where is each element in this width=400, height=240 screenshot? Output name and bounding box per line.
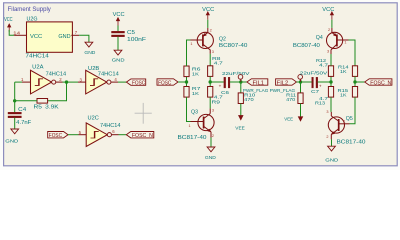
svg-text:22uF/50V: 22uF/50V: [300, 71, 328, 77]
capacitor C7 22uF/50V: [300, 71, 328, 95]
svg-text:74HC14: 74HC14: [25, 54, 49, 60]
svg-text:1K: 1K: [340, 69, 347, 75]
pin 14 (U2G VCC): [13, 30, 26, 35]
resistor R7 1K: [184, 86, 201, 97]
svg-text:FIL2: FIL2: [277, 80, 289, 86]
wire R9 to Q3 collector: [209, 97, 211, 108]
inverter U2B 74HC14: [86, 66, 119, 94]
pin 3 (Q4 collector): [327, 49, 329, 53]
pin 2 (U2A output): [56, 77, 63, 82]
svg-text:3: 3: [212, 108, 214, 112]
svg-text:4.7: 4.7: [214, 61, 223, 67]
svg-text:Filament Supply: Filament Supply: [8, 6, 52, 13]
pin 7 (U2G GND): [71, 30, 79, 35]
global label FOSC_N (driver input): [365, 79, 392, 87]
pin 1 (Q2 base): [190, 42, 192, 46]
wire through base node right: [354, 76, 356, 86]
svg-text:22uF/50V: 22uF/50V: [222, 71, 250, 77]
svg-text:C5: C5: [127, 30, 135, 36]
wire R15 to Q5 base: [350, 97, 356, 124]
svg-text:3: 3: [326, 110, 328, 114]
wire R12 to Q4 collector: [330, 54, 332, 66]
svg-text:BC807-40: BC807-40: [219, 43, 248, 49]
wire junction to pin 3: [67, 81, 79, 83]
power VCC (Q4): [322, 7, 334, 28]
wire U2A output: [63, 81, 67, 83]
junction FIL2 node: [299, 80, 302, 83]
svg-text:1: 1: [344, 40, 346, 44]
svg-text:2: 2: [212, 134, 214, 138]
pin 5 (U2C input): [79, 130, 87, 135]
ground GND (Q5): [325, 139, 338, 163]
wire U2B output to label: [118, 81, 126, 83]
pin 2 (Q3 emitter): [212, 134, 214, 138]
wire VCC to pin 14: [9, 30, 14, 35]
wire C4 to GND: [14, 118, 16, 129]
svg-text:+: +: [219, 83, 222, 88]
inverter U2C 74HC14: [86, 116, 120, 147]
capacitor C6 22uF/50V: [219, 71, 251, 96]
svg-text:GND: GND: [84, 50, 95, 56]
svg-text:BC817-40: BC817-40: [178, 135, 207, 141]
junction input node: [13, 99, 16, 102]
svg-text:2: 2: [326, 135, 328, 139]
pin 1 (Q3 base): [189, 124, 191, 128]
global label FOSC (U2B output): [126, 79, 145, 87]
svg-text:100nF: 100nF: [127, 37, 146, 43]
ground GND (Q3): [205, 138, 216, 162]
resistor R12 4.7: [316, 58, 334, 76]
wire C5 to GND: [117, 37, 119, 51]
pin 1 (Q4 base): [344, 40, 346, 44]
resistor R14 1K: [338, 64, 358, 76]
cursor crosshair: [135, 103, 152, 124]
svg-text:1: 1: [189, 124, 191, 128]
resistor R6 1K: [184, 66, 201, 77]
power VEE (R11): [284, 104, 302, 123]
svg-text:U2A: U2A: [32, 65, 44, 71]
junction right output node: [329, 80, 332, 83]
global label FIL2: [276, 79, 301, 87]
wire Q2 collector to R8: [209, 54, 211, 66]
transistor Q3 BC817-40 (NPN): [178, 108, 215, 141]
svg-text:2: 2: [328, 28, 330, 32]
ground GND (C4): [5, 129, 18, 145]
svg-text:1K: 1K: [192, 91, 200, 97]
capacitor C5 100nF: [112, 30, 147, 43]
sheet title text "Filament Supply": [8, 6, 52, 13]
transistor Q2 BC807-40 (PNP): [191, 28, 248, 54]
transistor Q5 BC817-40 (NPN, mirrored): [328, 112, 365, 146]
svg-text:FOSC_N: FOSC_N: [370, 80, 391, 86]
svg-text:FOSC_N: FOSC_N: [132, 133, 153, 139]
wire C7 to output node: [318, 81, 331, 83]
svg-text:VEE: VEE: [235, 125, 245, 131]
svg-text:VEE: VEE: [284, 117, 293, 123]
inverter U2A 74HC14 (Schmitt): [31, 65, 67, 94]
global label FIL1: [241, 79, 268, 87]
junction U2A output node: [65, 80, 68, 83]
pin 1 (U2A input): [21, 77, 31, 82]
wire FOSC to base node: [178, 81, 187, 83]
capacitor C4 4.7nF: [8, 107, 31, 126]
transistor Q4 BC807-40 (PNP, mirrored): [293, 28, 349, 54]
svg-text:FOSC: FOSC: [132, 80, 146, 86]
resistor R9 4.7: [208, 87, 224, 106]
svg-text:74HC14: 74HC14: [100, 123, 121, 129]
wire input node to pin 1: [15, 81, 22, 83]
svg-text:VCC: VCC: [4, 17, 13, 23]
pin 4 (U2B output): [111, 77, 118, 82]
pin 6 (U2C output): [112, 129, 119, 135]
pin 1 (Q5 base): [343, 120, 345, 124]
ground GND (C5): [112, 50, 125, 63]
svg-text:U2C: U2C: [88, 116, 100, 122]
svg-text:74HC14: 74HC14: [46, 71, 67, 77]
svg-text:+: +: [319, 83, 322, 88]
svg-text:VCC: VCC: [113, 12, 125, 18]
svg-text:3: 3: [327, 49, 329, 53]
svg-text:R5: R5: [34, 104, 43, 110]
svg-text:FIL1: FIL1: [253, 80, 265, 86]
wire through base node: [186, 77, 188, 87]
wire output node to C6: [210, 81, 224, 83]
svg-text:Q5: Q5: [346, 116, 353, 122]
junction driver output node: [209, 80, 212, 83]
svg-text:VCC: VCC: [30, 34, 43, 40]
svg-text:1K: 1K: [340, 93, 347, 99]
power flag PWR_FLAG (FIL2): [270, 75, 303, 94]
resistor R15 1K: [338, 87, 358, 99]
wire R6 to Q2 base: [187, 40, 191, 66]
svg-text:BC807-40: BC807-40: [293, 43, 320, 49]
power VCC (U2G pin 14): [4, 17, 13, 32]
svg-text:VCC: VCC: [202, 7, 214, 13]
svg-text:Q4: Q4: [316, 35, 323, 41]
svg-text:3.9K: 3.9K: [45, 104, 59, 110]
pin 2 (Q2 emitter): [210, 29, 212, 33]
svg-text:1: 1: [343, 120, 345, 124]
svg-text:4.7nF: 4.7nF: [16, 120, 31, 126]
wire feedback to input node: [15, 82, 37, 101]
pin 3 (Q2 collector): [212, 50, 214, 54]
wire input node to C4: [14, 101, 16, 112]
svg-text:VCC: VCC: [322, 7, 334, 13]
wire U2C output to label: [119, 134, 127, 136]
wire Q4 base to R14: [349, 40, 356, 66]
wire feedback down: [48, 82, 67, 101]
svg-text:C4: C4: [18, 107, 26, 113]
wire through output node: [209, 76, 211, 86]
svg-text:GND: GND: [325, 158, 338, 164]
svg-text:C7: C7: [311, 89, 319, 95]
power VEE (R10): [235, 104, 245, 132]
resistor R5 3.9K: [34, 99, 60, 111]
wire pin 7 to GND: [79, 35, 89, 42]
wire R7 to Q3 base: [187, 97, 191, 121]
svg-text:14: 14: [13, 30, 21, 35]
wire C6 to FIL1 node: [230, 81, 241, 83]
power VCC (Q2): [202, 7, 214, 28]
resistor R13 4.7: [315, 87, 334, 107]
ground GND (U2G pin 7): [84, 42, 95, 56]
global label FOSC (U2C input): [48, 132, 68, 140]
resistor R8 4.7: [208, 56, 224, 76]
wire FIL2 node to C7: [301, 81, 312, 83]
wire R13 to Q5 collector: [330, 97, 332, 112]
svg-text:FOSC: FOSC: [158, 80, 172, 86]
svg-text:R9: R9: [212, 99, 221, 105]
svg-text:GND: GND: [112, 58, 125, 64]
IC U2G 74HC14 power unit: [25, 16, 72, 59]
svg-text:GND: GND: [205, 155, 216, 161]
pin 2 (Q5 emitter): [326, 135, 328, 139]
svg-text:4.7: 4.7: [319, 62, 328, 68]
svg-text:Q2: Q2: [219, 36, 226, 42]
pin 2 (Q4 emitter): [328, 28, 330, 32]
svg-text:1: 1: [190, 42, 192, 46]
resistor R10 470: [238, 82, 255, 104]
svg-text:U2G: U2G: [27, 16, 38, 22]
wire through right output node: [330, 76, 332, 86]
svg-text:C6: C6: [221, 90, 229, 96]
svg-text:R13: R13: [315, 100, 325, 106]
global label FOSC (driver input): [157, 79, 178, 87]
resistor R11 470: [286, 82, 303, 104]
junction base divider node: [185, 80, 188, 83]
wire label to U2C: [68, 134, 79, 136]
pin 3 (Q3 collector): [212, 108, 214, 112]
svg-text:FOSC: FOSC: [49, 133, 63, 139]
svg-text:Q3: Q3: [191, 110, 198, 116]
pin 3 (U2B input): [78, 77, 86, 82]
power VCC (C5): [113, 12, 125, 31]
svg-text:GND: GND: [58, 34, 71, 40]
power flag PWR_FLAG (FIL1): [238, 75, 268, 94]
junction FIL1 node: [239, 80, 242, 83]
wire base node to FOSC_N: [355, 81, 365, 83]
svg-text:GND: GND: [5, 139, 18, 145]
pin 3 (Q5 collector): [326, 110, 328, 114]
global label FOSC_N (U2C output): [126, 132, 154, 140]
junction right base node: [353, 80, 356, 83]
svg-text:470: 470: [244, 97, 254, 103]
svg-text:2: 2: [210, 29, 212, 33]
svg-text:3: 3: [212, 50, 214, 54]
svg-text:470: 470: [286, 97, 295, 103]
svg-text:BC817-40: BC817-40: [337, 140, 366, 146]
svg-text:1K: 1K: [192, 71, 200, 77]
